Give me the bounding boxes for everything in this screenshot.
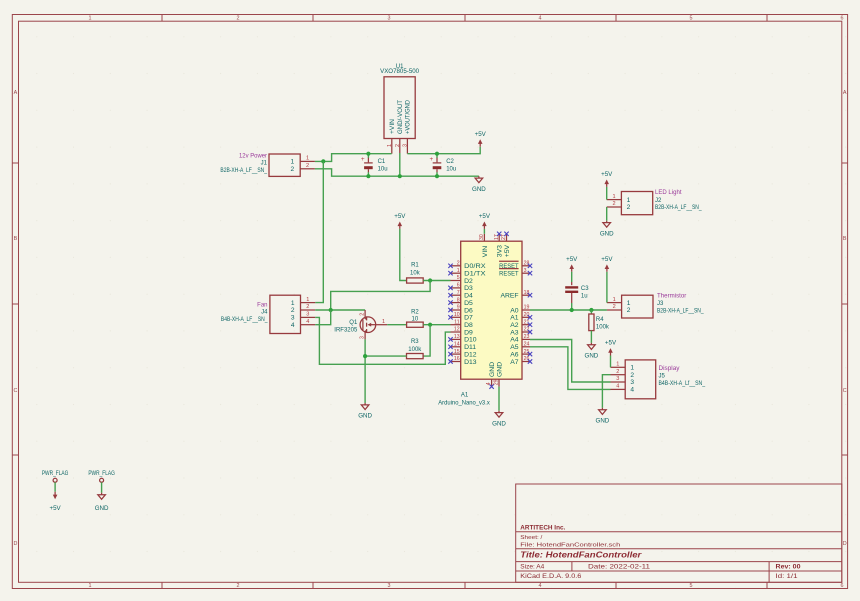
svg-text:2: 2	[291, 166, 295, 173]
svg-text:2: 2	[306, 163, 309, 169]
R1 value 10k	[410, 271, 421, 277]
svg-text:19: 19	[524, 305, 530, 311]
svg-text:18: 18	[524, 290, 530, 296]
svg-text:GND: GND	[496, 362, 503, 377]
power symbol +5V above J2 pin1	[601, 171, 613, 187]
junction source node at R3	[363, 354, 367, 358]
junction GND rail at U1 pin2	[398, 174, 402, 178]
J5 value B4B-XH-A_Lf__SN_	[659, 381, 706, 387]
svg-text:D12: D12	[464, 351, 477, 358]
svg-text:6: 6	[457, 283, 460, 289]
svg-text:30: 30	[479, 234, 485, 240]
svg-text:J3: J3	[657, 301, 664, 307]
svg-text:B4B-XH-A_Lf__SN_: B4B-XH-A_Lf__SN_	[659, 381, 706, 387]
svg-text:A2: A2	[510, 322, 519, 329]
U1 reference U1	[396, 64, 404, 70]
svg-text:+: +	[430, 156, 434, 163]
svg-text:GND: GND	[492, 420, 506, 427]
svg-text:2: 2	[395, 144, 401, 147]
wire R1 to Arduino D2	[423, 280, 450, 282]
svg-text:17: 17	[494, 234, 500, 240]
svg-text:8: 8	[457, 297, 460, 303]
svg-text:Q1: Q1	[349, 320, 358, 326]
svg-text:+5V: +5V	[566, 256, 578, 263]
J4 value B4B-XH-A_LF__SN_	[221, 317, 268, 323]
svg-text:LED Light: LED Light	[655, 190, 682, 196]
svg-text:C3: C3	[581, 286, 589, 292]
wire +5V to VIN	[483, 229, 485, 234]
C2 value 10u	[446, 166, 456, 172]
svg-text:B: B	[14, 236, 18, 242]
wire PWR_FLAG to GND symbol	[101, 482, 103, 493]
svg-text:A5: A5	[510, 344, 519, 351]
svg-text:100k: 100k	[408, 347, 422, 353]
power symbol +5V above R1	[394, 213, 406, 229]
svg-text:R4: R4	[596, 317, 604, 323]
svg-text:GND: GND	[472, 186, 486, 193]
wire A5 to display pin4	[530, 347, 611, 390]
wire A0 to R4	[590, 310, 592, 314]
svg-text:A1: A1	[510, 315, 519, 322]
title block file field	[520, 543, 620, 549]
svg-text:B2B-XH-A_LF__SN_: B2B-XH-A_LF__SN_	[655, 205, 702, 211]
U1 pin 1 +VIN stub	[387, 139, 393, 154]
J3 field Thermistor	[657, 294, 686, 300]
wire Q1 source down to ground	[364, 339, 366, 403]
svg-text:2: 2	[457, 261, 460, 267]
J1 pin number 2	[306, 163, 309, 169]
power symbol +5V above C3	[566, 256, 578, 272]
A1 top pin 17 3V3	[494, 232, 504, 258]
ground symbol below R4	[585, 343, 599, 360]
A1 left pin 6 D3	[448, 283, 473, 293]
junction +5V rail at C2 top	[435, 152, 439, 156]
J3 value B2B-XH-A_LF__SN_	[657, 309, 704, 315]
J3 pin number 2	[613, 304, 616, 310]
svg-text:C: C	[843, 388, 847, 394]
svg-text:C1: C1	[378, 159, 386, 165]
wire 12V: J1 pin1 to U1 +VIN rail	[315, 154, 392, 162]
title block outline	[516, 484, 842, 582]
connector J3 Thermistor	[607, 295, 653, 318]
A1 left pin 5 D2	[451, 275, 474, 285]
C1 reference	[378, 159, 386, 165]
svg-text:27: 27	[501, 234, 507, 240]
svg-text:4: 4	[539, 16, 542, 22]
svg-text:10k: 10k	[410, 271, 421, 277]
title block id field	[776, 574, 799, 580]
svg-text:1u: 1u	[581, 294, 588, 300]
wire +5V to J3 pin1	[606, 272, 608, 303]
junction drain node at fan pin2	[329, 308, 333, 312]
junction GND rail at C2	[435, 174, 439, 178]
microcontroller A1 Arduino Nano body	[461, 241, 522, 379]
svg-text:13: 13	[454, 334, 460, 340]
svg-text:B2B-XH-A_LF__SN_: B2B-XH-A_LF__SN_	[657, 309, 704, 315]
svg-text:3: 3	[630, 379, 634, 386]
svg-text:D8: D8	[464, 322, 473, 329]
svg-text:B2B-XH-A_LF__SN_: B2B-XH-A_LF__SN_	[220, 168, 267, 174]
resistor R4 100k	[589, 314, 594, 331]
svg-text:B4B-XH-A_LF__SN_: B4B-XH-A_LF__SN_	[221, 317, 268, 323]
C1 value 10u	[378, 166, 388, 172]
svg-text:A4: A4	[510, 337, 519, 344]
ground symbol below J5	[596, 408, 610, 425]
A1 bottom pin 29 GND	[494, 362, 504, 387]
capacitor C1 10u	[361, 154, 373, 177]
svg-text:D: D	[843, 541, 847, 547]
svg-text:3: 3	[616, 376, 619, 382]
svg-text:D0/RX: D0/RX	[464, 263, 486, 270]
svg-text:J4: J4	[261, 310, 268, 316]
svg-text:+5V: +5V	[475, 131, 487, 138]
svg-text:1: 1	[387, 144, 393, 147]
title block rev field	[776, 564, 802, 570]
svg-text:1: 1	[616, 362, 619, 368]
J1 field 12v Power	[239, 153, 267, 159]
title block sheet field	[520, 535, 542, 541]
svg-text:3: 3	[403, 144, 409, 147]
J2 pin number 2	[612, 201, 615, 207]
svg-text:1: 1	[291, 159, 295, 166]
svg-text:1: 1	[612, 194, 615, 200]
svg-text:Id: 1/1: Id: 1/1	[776, 574, 799, 580]
svg-text:Size: A4: Size: A4	[520, 564, 545, 570]
A1 left pin 15 D12	[448, 349, 476, 359]
svg-text:GND: GND	[596, 418, 610, 425]
title block company name	[520, 525, 565, 531]
svg-text:4: 4	[306, 319, 309, 325]
svg-text:VIN: VIN	[482, 246, 489, 257]
wire R4 to ground	[590, 331, 592, 343]
svg-text:+5V: +5V	[605, 340, 617, 347]
title block size field	[520, 564, 545, 570]
J2 reference J2	[655, 198, 662, 204]
wire +5V: U1 +VOUT rail to +5V symbol	[407, 147, 480, 154]
svg-text:D7: D7	[464, 315, 473, 322]
svg-text:1: 1	[89, 583, 92, 589]
transistor Q1 IRF3205	[360, 316, 376, 333]
svg-text:7: 7	[457, 290, 460, 296]
svg-text:D1/TX: D1/TX	[464, 271, 486, 278]
junction GND rail at C1	[366, 174, 370, 178]
ground symbol below Q1	[358, 403, 372, 420]
svg-text:1: 1	[306, 297, 309, 303]
svg-text:14: 14	[454, 342, 460, 348]
power flag PWR_FLAG on +5V	[42, 470, 69, 482]
A1 right pin 22 A3	[510, 327, 532, 337]
svg-text:11: 11	[454, 319, 459, 325]
wire GND: J1 pin2 to bottom rail	[315, 169, 479, 176]
svg-text:D13: D13	[464, 359, 477, 366]
svg-text:Title: HotendFanController: Title: HotendFanController	[520, 550, 642, 560]
wire D2 node down to fan drain node	[331, 281, 430, 311]
svg-text:12: 12	[454, 327, 460, 333]
svg-text:15: 15	[454, 349, 460, 355]
svg-text:24: 24	[524, 342, 530, 348]
U1 value VXO7805-500	[380, 69, 420, 75]
svg-text:D: D	[13, 541, 17, 547]
R3 reference	[411, 339, 419, 345]
svg-text:1: 1	[627, 300, 631, 307]
J2 field LED Light	[655, 190, 682, 196]
svg-text:GND: GND	[489, 362, 496, 377]
C3 reference	[581, 286, 589, 292]
svg-text:25: 25	[524, 349, 530, 355]
A1 right pin 21 A2	[510, 319, 532, 329]
svg-text:+: +	[361, 156, 365, 163]
svg-text:10: 10	[412, 317, 419, 323]
svg-text:A: A	[14, 90, 18, 96]
R2 value 10	[412, 317, 419, 323]
A1 right pin 24 A5	[510, 342, 530, 352]
svg-text:10u: 10u	[378, 166, 388, 172]
svg-text:Thermistor: Thermistor	[657, 294, 686, 300]
svg-text:10: 10	[454, 312, 460, 318]
wire +5V to J2 pin1	[606, 187, 608, 200]
wire GND: U1 pin2 down to rail	[399, 153, 401, 176]
svg-text:GND: GND	[95, 505, 109, 512]
A1 left pin 8 D5	[448, 297, 473, 307]
svg-text:1: 1	[291, 300, 295, 307]
R4 value 100k	[596, 325, 610, 331]
svg-text:+VOUT/GND: +VOUT/GND	[405, 100, 412, 134]
A1 right pin 19 A0	[510, 305, 530, 315]
junction D8 gate node	[428, 323, 432, 327]
junction A0 at R4	[589, 308, 593, 312]
Q1 value IRF3205	[334, 327, 358, 333]
svg-text:D11: D11	[464, 344, 476, 351]
svg-text:1: 1	[630, 365, 634, 372]
R2 reference	[411, 310, 419, 316]
J2 value B2B-XH-A_LF__SN_	[655, 205, 702, 211]
svg-text:3: 3	[306, 312, 309, 318]
wire A0 rail to thermistor	[530, 309, 607, 311]
svg-text:R3: R3	[411, 339, 419, 345]
power flag PWR_FLAG on GND	[88, 470, 115, 482]
wire J5 pin2 to ground	[602, 375, 610, 408]
wire Arduino GND pin down	[498, 387, 500, 411]
J1 pin number 1	[306, 156, 309, 162]
svg-text:+5V: +5V	[394, 213, 406, 220]
Q1 reference Q1	[349, 320, 358, 326]
J3 pin number 1	[613, 297, 616, 303]
A1 right pin 23 A4	[510, 334, 530, 344]
svg-text:D3: D3	[464, 285, 473, 292]
Q1 gate pin stub and pin number 1	[376, 319, 388, 325]
svg-text:9: 9	[457, 305, 460, 311]
A1 top pin 30 VIN	[479, 234, 489, 257]
wire Q1 gate to R2	[387, 324, 406, 326]
svg-text:+5V: +5V	[479, 213, 491, 220]
svg-text:KiCad E.D.A. 9.0.6: KiCad E.D.A. 9.0.6	[520, 574, 582, 580]
A1 left pin 1 D1/TX	[448, 268, 486, 278]
svg-text:10u: 10u	[446, 166, 456, 172]
svg-text:5: 5	[690, 583, 693, 589]
svg-text:PWR_FLAG: PWR_FLAG	[42, 470, 69, 477]
svg-text:5: 5	[690, 16, 693, 22]
svg-text:GND: GND	[585, 353, 599, 360]
svg-text:R1: R1	[411, 263, 419, 269]
C2 reference	[446, 159, 454, 165]
U1 pin 2 GND stub	[395, 139, 401, 154]
Q1 drain pin stub	[360, 310, 366, 318]
resistor R1 10k	[407, 278, 424, 283]
svg-text:GND: GND	[358, 413, 372, 420]
svg-text:1: 1	[382, 319, 385, 325]
svg-text:J2: J2	[655, 198, 662, 204]
A1 right pin 26 A7	[510, 356, 532, 366]
connector J1 12v Power	[269, 154, 315, 176]
svg-text:2: 2	[237, 16, 240, 22]
svg-text:2: 2	[612, 201, 615, 207]
svg-text:D9: D9	[464, 329, 473, 336]
svg-text:Display: Display	[659, 366, 680, 372]
wire fan pin3 tach to D9	[315, 317, 450, 364]
capacitor C3 1u	[565, 282, 578, 310]
svg-text:GND: GND	[600, 230, 614, 237]
J1 value B2B-XH-A_LF__SN_	[220, 168, 267, 174]
svg-text:2: 2	[291, 307, 295, 314]
R3 value 100k	[408, 347, 422, 353]
wire A4 to display pin3	[530, 340, 611, 383]
svg-text:12v Power: 12v Power	[239, 153, 267, 159]
A1 left pin 9 D6	[448, 305, 473, 315]
wire +5V to C3	[571, 272, 573, 282]
svg-text:3: 3	[388, 16, 391, 22]
ground symbol below right PWR_FLAG	[95, 493, 109, 512]
svg-text:3: 3	[291, 315, 295, 322]
svg-text:A6: A6	[510, 351, 519, 358]
svg-text:+5V: +5V	[504, 244, 511, 257]
svg-text:D5: D5	[464, 300, 473, 307]
svg-text:1: 1	[457, 268, 460, 274]
R4 reference	[596, 317, 604, 323]
svg-text:1: 1	[89, 16, 92, 22]
svg-text:Date: 2022-02-11: Date: 2022-02-11	[588, 564, 651, 570]
ground symbol below Arduino	[492, 411, 506, 428]
svg-text:PWR_FLAG: PWR_FLAG	[88, 470, 115, 477]
svg-text:+5V: +5V	[601, 171, 613, 178]
svg-text:C2: C2	[446, 159, 454, 165]
svg-text:ARTITECH Inc.: ARTITECH Inc.	[520, 525, 565, 531]
svg-text:A3: A3	[510, 329, 519, 336]
title block kicad version	[520, 574, 582, 580]
junction 12V rail at C1 top	[366, 152, 370, 156]
svg-text:Arduino_Nano_v3.x: Arduino_Nano_v3.x	[438, 401, 490, 407]
svg-text:6: 6	[841, 16, 844, 22]
connector J5 Display	[611, 360, 656, 399]
svg-text:3: 3	[360, 336, 366, 339]
svg-text:1: 1	[613, 297, 616, 303]
svg-text:D10: D10	[464, 337, 477, 344]
power symbol +5V above VIN	[479, 213, 491, 229]
svg-text:J5: J5	[659, 374, 666, 380]
title block title field	[520, 550, 642, 560]
svg-text:21: 21	[524, 319, 530, 325]
svg-text:4: 4	[539, 583, 542, 589]
svg-text:D2: D2	[464, 278, 473, 285]
R1 reference	[411, 263, 419, 269]
wire J2 pin2 to ground	[606, 207, 608, 221]
A1 left pin 12 D9	[451, 327, 474, 337]
svg-text:3: 3	[388, 583, 391, 589]
svg-text:J1: J1	[261, 161, 268, 167]
wire PWR_FLAG to +5V symbol	[54, 482, 56, 492]
svg-text:A1: A1	[461, 393, 469, 399]
svg-text:Fan: Fan	[257, 302, 267, 308]
wire R3 to source node	[365, 355, 406, 357]
svg-text:A: A	[843, 90, 847, 96]
J4 field Fan	[257, 302, 267, 308]
svg-text:6: 6	[841, 583, 844, 589]
J3 reference J3	[657, 301, 664, 307]
svg-text:100k: 100k	[596, 325, 610, 331]
svg-text:1: 1	[627, 197, 631, 204]
capacitor C2 10u	[430, 154, 442, 177]
svg-text:23: 23	[524, 334, 530, 340]
A1 bottom pin 4 GND	[486, 362, 496, 389]
svg-text:3: 3	[524, 268, 527, 274]
power symbol +5V at output rail	[475, 131, 487, 147]
svg-text:2: 2	[627, 307, 631, 314]
svg-text:16: 16	[454, 356, 460, 362]
svg-text:D4: D4	[464, 293, 473, 300]
A1 right pin 3 RESET	[499, 268, 532, 278]
A1 right pin 20 A1	[510, 312, 532, 322]
svg-text:Rev: 00: Rev: 00	[776, 564, 802, 570]
svg-text:C: C	[13, 388, 17, 394]
svg-text:RESET: RESET	[499, 271, 519, 278]
svg-text:5: 5	[457, 275, 460, 281]
wire fan pin2 to Q1 drain	[315, 309, 365, 311]
svg-text:2: 2	[237, 583, 240, 589]
svg-text:2: 2	[627, 204, 631, 211]
svg-text:20: 20	[524, 312, 530, 318]
ground symbol below J2	[600, 221, 614, 238]
connector J2 LED Light	[607, 192, 653, 215]
svg-text:+5V: +5V	[601, 256, 613, 263]
svg-text:A0: A0	[510, 307, 519, 314]
wire +5V to J5 pin1	[610, 356, 612, 368]
A1 left pin 10 D7	[448, 312, 473, 322]
title block date field	[588, 564, 651, 570]
svg-text:A7: A7	[510, 359, 519, 366]
svg-text:AREF: AREF	[500, 293, 518, 300]
A1 right pin 28 RESET	[499, 261, 532, 271]
C3 value 1u	[581, 294, 588, 300]
svg-text:4: 4	[616, 384, 619, 390]
A1 right pin 18 AREF	[500, 290, 532, 300]
wire gate node down to R3	[423, 325, 430, 356]
J4 reference J4	[261, 310, 268, 316]
svg-text:2: 2	[630, 372, 634, 379]
svg-text:29: 29	[494, 379, 500, 385]
A1 left pin 13 D10	[448, 334, 476, 344]
A1 reference A1	[461, 393, 469, 399]
U1 pin 3 +VOUT stub	[403, 139, 409, 154]
svg-text:IRF3205: IRF3205	[334, 327, 358, 333]
svg-text:R2: R2	[411, 310, 419, 316]
svg-text:3V3: 3V3	[497, 245, 504, 257]
svg-text:Sheet: /: Sheet: /	[520, 535, 542, 541]
svg-text:4: 4	[630, 387, 634, 394]
svg-text:2: 2	[616, 369, 619, 375]
svg-text:GND/-VOUT: GND/-VOUT	[397, 100, 404, 134]
svg-text:4: 4	[291, 322, 295, 329]
wire 12V: down to fan connector pin1	[315, 161, 323, 302]
J5 reference J5	[659, 374, 666, 380]
